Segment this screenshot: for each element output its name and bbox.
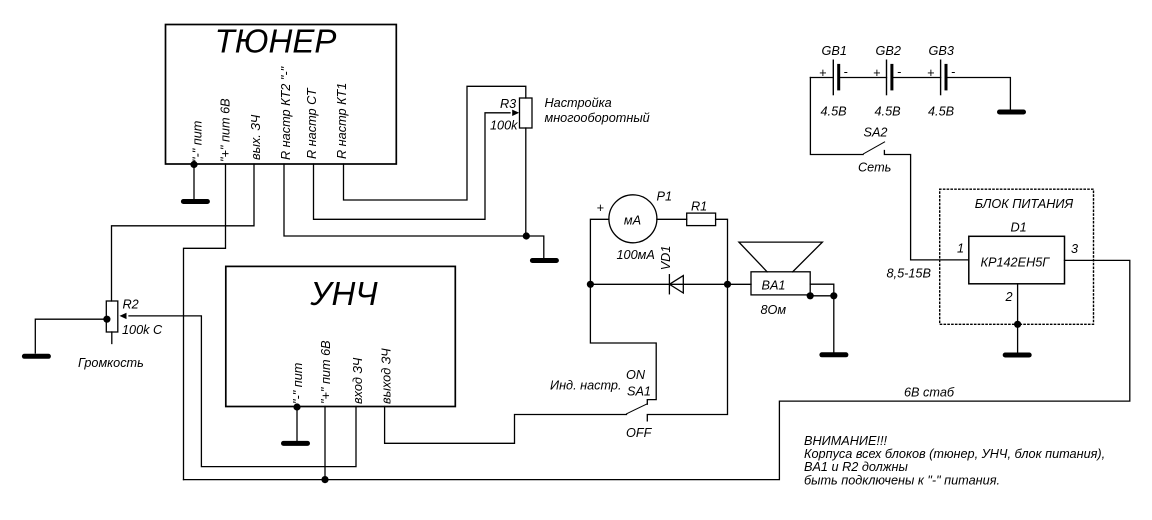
svg-text:4.5В: 4.5В — [875, 104, 902, 118]
svg-text:ВНИМАНИЕ!!!: ВНИМАНИЕ!!! — [804, 434, 887, 448]
svg-text:SA1: SA1 — [627, 385, 651, 399]
svg-text:быть подключены к "-" питания.: быть подключены к "-" питания. — [804, 474, 1000, 488]
svg-text:4.5В: 4.5В — [821, 104, 848, 118]
node tuner pin1 — [190, 161, 197, 168]
node left (meter/diode) — [587, 281, 594, 288]
ground (below R3) — [532, 258, 556, 263]
svg-text:ТЮНЕР: ТЮНЕР — [215, 22, 337, 59]
svg-text:6В стаб: 6В стаб — [904, 386, 955, 400]
svg-text:ON: ON — [626, 368, 646, 382]
svg-text:SA2: SA2 — [864, 125, 888, 139]
svg-text:R настр КТ2 "-": R настр КТ2 "-" — [279, 66, 293, 160]
node on dotted box edge — [1014, 321, 1021, 328]
power supply dotted box БЛОК ПИТАНИЯ — [940, 189, 1094, 324]
wire battery left down to SA2 — [810, 78, 863, 155]
wire tuner pin3 вых. ЗЧ to R2 top — [112, 164, 255, 301]
svg-text:D1: D1 — [1011, 221, 1027, 235]
wire R2 lower terminal to ground — [35, 319, 107, 353]
node R2 terminal — [103, 316, 110, 323]
svg-text:Громкость: Громкость — [78, 356, 144, 370]
wire УНЧ "+" пит to 6V bus — [324, 407, 326, 480]
wire УНЧ pin "-" пит to ground — [296, 407, 298, 442]
wire УНЧ вход ЗЧ from R2 wiper — [129, 316, 356, 467]
svg-text:BA1: BA1 — [762, 279, 786, 293]
wire battery chain — [810, 78, 1010, 110]
wire BA1 right to ground — [810, 284, 834, 352]
svg-text:GB3: GB3 — [929, 44, 954, 58]
wire R1 right down to diode line — [716, 219, 728, 284]
svg-text:GB1: GB1 — [822, 44, 847, 58]
svg-text:4.5В: 4.5В — [928, 104, 955, 118]
node УНЧ pin1 — [293, 403, 300, 410]
wire tuner pin5 R настр СТ to R3 wiper — [314, 113, 511, 220]
switch SA2 lever — [864, 142, 885, 154]
svg-text:выход ЗЧ: выход ЗЧ — [380, 348, 394, 404]
svg-text:BA1 и R2 должны: BA1 и R2 должны — [804, 460, 908, 474]
svg-text:1: 1 — [957, 242, 964, 256]
svg-text:"-" пит: "-" пит — [191, 121, 205, 162]
wire BA1 left — [728, 283, 752, 285]
svg-text:"+" пит 6В: "+" пит 6В — [219, 98, 233, 162]
svg-text:Настройка: Настройка — [545, 96, 612, 110]
note ВНИМАНИЕ — [804, 434, 1105, 488]
battery GB3 — [941, 60, 946, 94]
svg-text:"+" пит 6В: "+" пит 6В — [319, 340, 333, 404]
ground (R2) — [24, 354, 48, 359]
node BA1 corner — [807, 292, 814, 299]
battery GB2 — [887, 60, 892, 94]
svg-text:8,5-15В: 8,5-15В — [887, 267, 932, 281]
wire tuner pin4 R настр КТ2 to R3 bottom junction — [284, 164, 526, 236]
potentiometer R3 — [512, 98, 532, 128]
ground (BA1) — [822, 352, 846, 357]
svg-text:вход ЗЧ: вход ЗЧ — [351, 357, 365, 404]
svg-text:"-" пит: "-" пит — [291, 363, 305, 404]
battery polarity marks — [819, 65, 955, 80]
svg-text:многооборотный: многооборотный — [545, 111, 650, 125]
svg-text:GB2: GB2 — [876, 44, 901, 58]
svg-text:БЛОК ПИТАНИЯ: БЛОК ПИТАНИЯ — [975, 197, 1074, 211]
svg-text:VD1: VD1 — [659, 246, 673, 271]
svg-text:3: 3 — [1071, 242, 1078, 256]
svg-text:УНЧ: УНЧ — [309, 275, 378, 312]
svg-text:Инд. настр.: Инд. настр. — [550, 379, 622, 393]
svg-text:8Ом: 8Ом — [761, 303, 787, 317]
battery GB1 — [833, 60, 838, 94]
svg-text:КР142ЕН5Г: КР142ЕН5Г — [981, 256, 1051, 270]
wire R3 bottom to junction and ground — [526, 128, 544, 258]
wire УНЧ output to SA1 common — [385, 407, 627, 444]
switch SA1 lever — [627, 404, 648, 414]
wire meter right to R1 — [657, 218, 687, 220]
potentiometer R2 — [106, 301, 126, 344]
wire meter left / plus branch — [590, 219, 609, 284]
wire SA1 OFF contact to diode/BA1 node — [647, 284, 727, 421]
svg-text:100k C: 100k C — [122, 323, 163, 337]
svg-text:R3: R3 — [500, 97, 516, 111]
block ТЮНЕР — [166, 22, 397, 164]
ground (tuner) — [183, 199, 207, 204]
loudspeaker BA1 — [739, 242, 823, 295]
svg-text:OFF: OFF — [626, 426, 653, 440]
wire D1 pin2 to ground — [1017, 284, 1019, 353]
svg-text:Сеть: Сеть — [858, 160, 891, 174]
svg-text:вых. ЗЧ: вых. ЗЧ — [249, 114, 263, 160]
svg-text:100мА: 100мА — [617, 248, 655, 262]
node on 6V bus — [321, 476, 328, 483]
regulator D1 — [969, 236, 1065, 283]
node BA1 ground branch — [830, 292, 837, 299]
wire D1 pin3 output 6V stab to bus — [184, 260, 1130, 479]
wire tuner pin1 to ground — [193, 164, 195, 199]
svg-text:+: + — [597, 201, 604, 215]
ground (battery) — [1000, 110, 1024, 115]
svg-text:100k: 100k — [490, 119, 518, 133]
node right (diode/BA1) — [724, 281, 731, 288]
wire diode rail — [590, 283, 727, 285]
node R3 bottom junction — [523, 232, 530, 239]
ground (D1) — [1005, 353, 1029, 358]
wire SA2 right contact to D1 pin1 — [884, 151, 968, 260]
svg-text:мА: мА — [624, 214, 641, 228]
diode VD1 — [669, 275, 683, 294]
svg-text:2: 2 — [1005, 290, 1013, 304]
block УНЧ — [226, 266, 455, 406]
resistor R1 — [687, 213, 716, 226]
wire meter branch down to SA1 ON contact — [590, 284, 656, 404]
svg-text:R2: R2 — [123, 298, 139, 312]
svg-text:R настр СТ: R настр СТ — [305, 87, 319, 159]
svg-text:R настр КТ1: R настр КТ1 — [335, 83, 349, 159]
svg-text:R1: R1 — [691, 199, 707, 213]
svg-text:Корпуса всех блоков (тюнер, УН: Корпуса всех блоков (тюнер, УНЧ, блок пи… — [804, 447, 1105, 461]
svg-text:P1: P1 — [657, 190, 673, 204]
wire tuner pin2 "+" пит down-left-down to 6V bus — [184, 164, 226, 480]
milliammeter P1 — [609, 195, 657, 243]
ground (УНЧ) — [284, 441, 308, 446]
wire tuner pin6 R настр КТ1 to R3 top — [344, 86, 526, 200]
